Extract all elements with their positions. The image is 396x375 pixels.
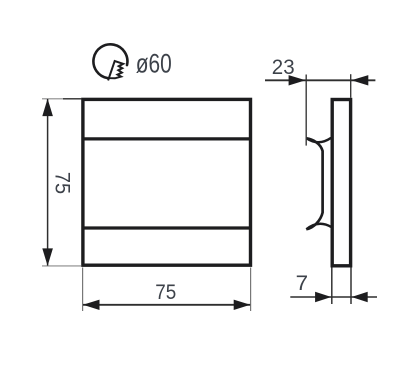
23 dim arrow right (points left) xyxy=(351,75,368,85)
side housing flare bottom xyxy=(306,224,331,230)
extension line 7 right xyxy=(350,268,352,305)
drill bit left edge overshoot xyxy=(108,77,109,80)
left dimension line 75 xyxy=(47,99,49,266)
left dim arrow down xyxy=(42,248,53,266)
extension line bottom dim left xyxy=(82,268,84,312)
extension line 7 left xyxy=(331,268,333,305)
front divider line lower xyxy=(83,226,251,229)
extension line bottom dim right xyxy=(250,268,252,312)
extension line top-left xyxy=(42,98,63,100)
svg-text:7: 7 xyxy=(296,272,309,295)
side housing body xyxy=(306,138,322,229)
extension line 23 left xyxy=(305,75,307,146)
bottom dim arrow left xyxy=(83,300,100,310)
dimension line 23 xyxy=(265,79,375,81)
svg-text:75: 75 xyxy=(155,281,176,304)
bottom dim arrow right xyxy=(234,300,251,310)
side view faceplate xyxy=(332,100,350,266)
7 dim arrow left (points right) xyxy=(315,292,331,302)
bottom dimension line 75 xyxy=(83,304,250,306)
drill bit xyxy=(109,61,123,78)
svg-text:75: 75 xyxy=(50,172,73,194)
front view square outline xyxy=(83,99,251,265)
hole-saw icon circle xyxy=(93,44,127,78)
extension line 23 right xyxy=(350,74,352,98)
side housing flare top xyxy=(306,138,331,142)
23 dim arrow left (points right) xyxy=(289,75,306,85)
front divider line upper xyxy=(83,137,251,140)
dimension line 7 xyxy=(290,296,377,298)
svg-text:23: 23 xyxy=(272,56,295,79)
extension line bottom-left xyxy=(42,265,81,267)
svg-text:ø60: ø60 xyxy=(136,48,172,78)
7 dim arrow right (points left) xyxy=(352,292,368,302)
left dim arrow up xyxy=(42,99,53,117)
